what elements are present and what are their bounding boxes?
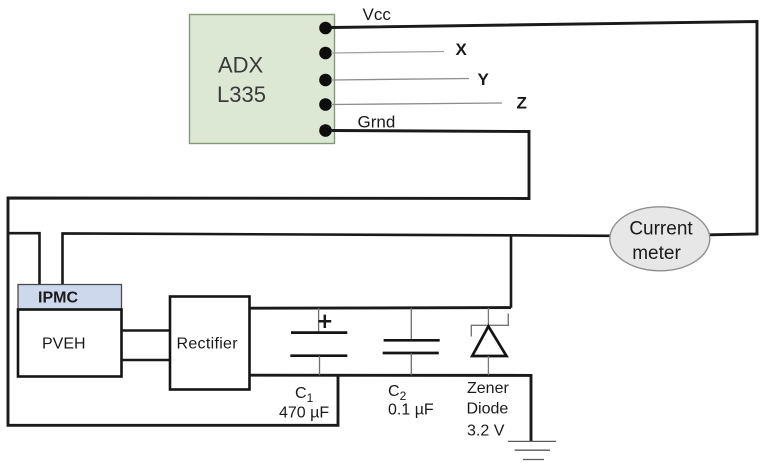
IPMC box xyxy=(18,285,122,310)
wire Vcc to current meter xyxy=(331,22,757,235)
pin Vcc (dot) xyxy=(319,22,332,35)
rectifier box xyxy=(170,297,250,390)
capacitor C2 bottom plate xyxy=(383,352,439,355)
svg-text:Diode: Diode xyxy=(467,401,509,418)
svg-text:L335: L335 xyxy=(217,82,266,107)
pin Y (dot) xyxy=(319,74,332,87)
capacitor C1 lead top xyxy=(318,308,320,333)
svg-text:Current: Current xyxy=(629,219,693,240)
svg-text:Grnd: Grnd xyxy=(358,113,396,132)
svg-text:ADX: ADX xyxy=(218,53,264,78)
svg-text:Vcc: Vcc xyxy=(363,5,392,24)
wire bottom rail and branch to ground xyxy=(250,375,532,441)
svg-text:Zener: Zener xyxy=(467,380,509,397)
zener diode D1 lead top xyxy=(487,308,489,326)
wire PVEH to rectifier lower xyxy=(122,359,171,362)
capacitor C2 lead top xyxy=(410,308,412,340)
svg-text:Z: Z xyxy=(517,94,527,113)
wire top rail to meter wire junction xyxy=(510,235,513,308)
current meter M1 xyxy=(610,207,710,271)
PVEH box xyxy=(18,310,122,377)
wire X xyxy=(331,52,444,54)
svg-text:470 µF: 470 µF xyxy=(279,405,329,422)
zener diode D1 triangle xyxy=(472,326,506,356)
svg-text:0.1 µF: 0.1 µF xyxy=(388,402,434,419)
svg-text:3.2 V: 3.2 V xyxy=(467,423,505,440)
wire Grnd ground loop xyxy=(8,131,529,426)
capacitor C2 lead bottom xyxy=(410,353,412,375)
capacitor C1 top plate xyxy=(291,331,347,334)
svg-text:Y: Y xyxy=(478,70,490,89)
IC U1 ADXL335 body xyxy=(190,15,335,144)
capacitor C1 plus sign xyxy=(318,315,331,328)
capacitor C1 bottom plate xyxy=(290,354,347,357)
wire Y xyxy=(331,79,469,81)
wire IPMC pin2 to current meter xyxy=(63,233,611,284)
wire Z xyxy=(331,103,502,105)
ground symbol xyxy=(508,441,556,459)
wire IPMC pin1 to ground rail xyxy=(8,233,40,284)
zener diode D1 lead bottom xyxy=(487,356,489,375)
capacitor C1 lead bottom xyxy=(319,356,321,376)
pin X (dot) xyxy=(319,47,332,60)
pin Grnd (dot) xyxy=(319,124,332,137)
zener diode D1 cathode bar xyxy=(471,314,508,337)
svg-text:IPMC: IPMC xyxy=(38,290,78,307)
svg-text:meter: meter xyxy=(632,243,681,264)
svg-text:PVEH: PVEH xyxy=(42,336,86,353)
svg-text:Rectifier: Rectifier xyxy=(177,336,239,353)
capacitor C2 top plate xyxy=(384,339,440,342)
pin Z (dot) xyxy=(319,98,332,111)
svg-text:X: X xyxy=(456,40,468,59)
wire PVEH to rectifier upper xyxy=(122,329,171,332)
wire top rail xyxy=(250,306,512,310)
